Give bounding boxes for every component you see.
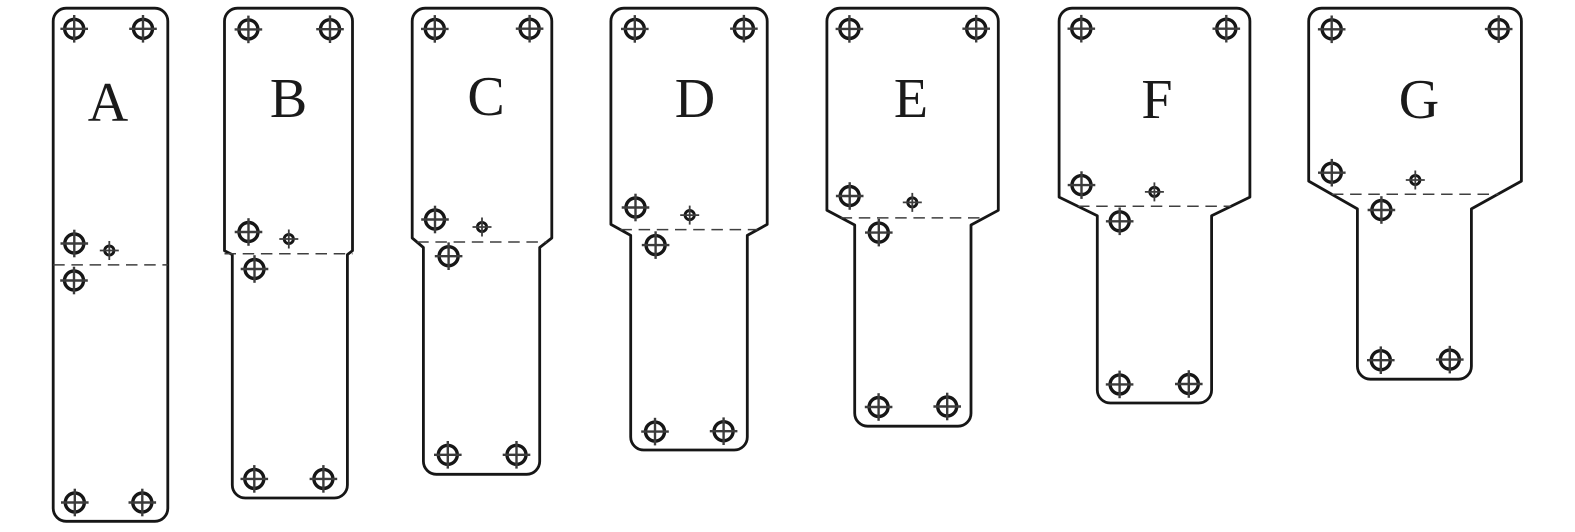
plate C hole bottom-left — [434, 441, 462, 469]
svg-text:D: D — [675, 68, 715, 130]
plate F hole bottom-left — [1106, 371, 1134, 399]
plate A hole above fold — [61, 230, 89, 258]
plate E small hole at centre — [903, 193, 922, 212]
plate G hole top-left — [1318, 16, 1346, 44]
plate F hole bottom-right — [1175, 370, 1203, 398]
plate B hole top-right — [316, 15, 344, 43]
plate B hole below fold — [241, 255, 269, 283]
plate B small hole at centre — [279, 230, 298, 249]
plate E hole below fold — [865, 219, 893, 247]
plate E hole top-left — [836, 15, 864, 43]
plate D hole bottom-right — [710, 417, 738, 445]
plate F hole below fold — [1106, 208, 1134, 236]
plate D hole above fold — [622, 194, 650, 222]
plate D hole below fold — [642, 231, 670, 259]
plate D small hole at centre — [680, 206, 699, 225]
plate C hole below fold — [435, 242, 463, 270]
plate A hole bottom-left — [61, 489, 89, 517]
plate B outline — [225, 8, 353, 498]
plate G hole top-right — [1485, 15, 1513, 43]
plate C hole bottom-right — [503, 441, 531, 469]
plate B hole bottom-left — [241, 465, 269, 493]
plate A hole top-left — [60, 15, 88, 43]
plate C fold line (dashed) — [417, 241, 546, 243]
plate G small hole at centre — [1406, 171, 1425, 190]
plate C hole top-left — [421, 15, 449, 43]
plate B hole bottom-right — [310, 465, 338, 493]
plate E fold line (dashed) — [841, 217, 985, 219]
plate D fold line (dashed) — [620, 229, 757, 231]
plate A hole bottom-right — [129, 489, 157, 517]
plate F hole above fold — [1068, 171, 1096, 199]
plate B fold line (dashed) — [225, 253, 353, 255]
plate G hole bottom-right — [1436, 346, 1464, 374]
plate D hole top-right — [730, 15, 758, 43]
svg-text:C: C — [467, 66, 504, 128]
plate F fold line (dashed) — [1078, 205, 1231, 207]
plate A hole top-right — [129, 15, 157, 43]
plate A small hole at centre — [100, 241, 119, 260]
plate E hole top-right — [962, 15, 990, 43]
plate F hole top-left — [1068, 15, 1096, 43]
plate A outline — [53, 8, 168, 521]
plate F hole top-right — [1213, 15, 1241, 43]
plate G fold line (dashed) — [1332, 193, 1499, 195]
svg-text:E: E — [894, 68, 928, 130]
plate D outline — [611, 8, 767, 450]
plate E outline — [827, 8, 998, 426]
plate G outline — [1309, 8, 1522, 379]
svg-text:A: A — [88, 72, 129, 134]
plate A hole below fold — [60, 267, 88, 295]
plate E hole above fold — [836, 182, 864, 210]
plate D hole bottom-left — [641, 418, 669, 446]
plate F small hole at centre — [1145, 182, 1164, 201]
plate D hole top-left — [621, 15, 649, 43]
svg-text:F: F — [1141, 69, 1172, 131]
plate B hole top-left — [235, 16, 263, 44]
plate A fold line (dashed) — [53, 264, 168, 266]
svg-text:B: B — [270, 68, 307, 130]
plate F outline — [1059, 8, 1250, 403]
plate B hole above fold — [235, 218, 263, 246]
plate C small hole at centre — [473, 218, 492, 237]
svg-text:G: G — [1399, 69, 1439, 131]
plate C hole above fold — [421, 206, 449, 234]
plate G hole bottom-left — [1367, 346, 1395, 374]
plate E hole bottom-left — [865, 393, 893, 421]
plate C hole top-right — [516, 15, 544, 43]
plate C outline — [412, 8, 552, 474]
plate E hole bottom-right — [933, 393, 961, 421]
plate G hole below fold — [1368, 196, 1396, 224]
plate G hole above fold — [1318, 159, 1346, 187]
